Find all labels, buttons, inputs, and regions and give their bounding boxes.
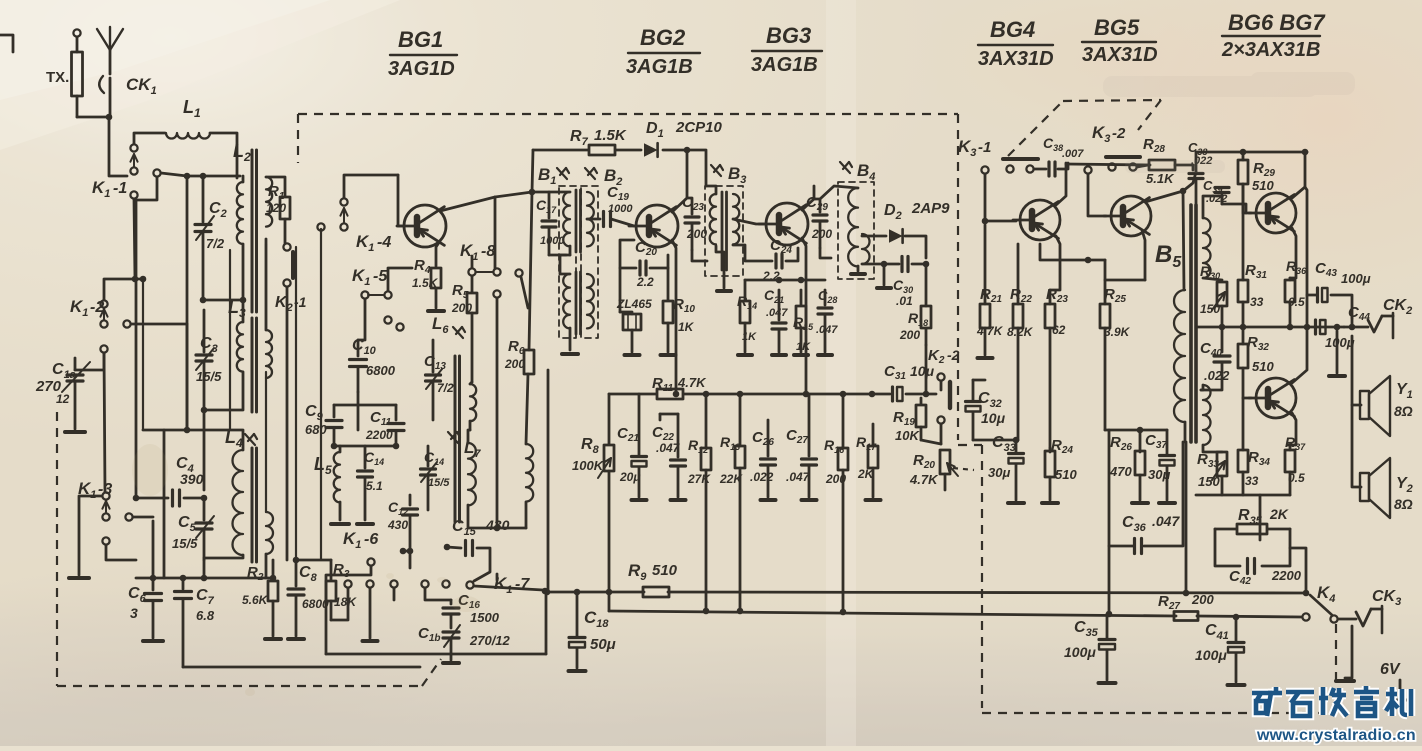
wire L3 top [242, 300, 245, 322]
svg-text:100K: 100K [572, 458, 605, 473]
wire K1-1 bottom contact down [134, 199, 135, 279]
svg-text:-2: -2 [947, 347, 960, 363]
wire L4 primary bottom [204, 555, 243, 558]
wire L6 top from R5 [470, 382, 472, 384]
wire emitter row rail [296, 559, 331, 562]
cropped mark top-left edge [0, 35, 13, 52]
wire C23 to B3 [692, 250, 707, 261]
wire vertical K2-1 down [286, 287, 289, 560]
wire B5 primary [1184, 422, 1187, 442]
transformer B2 windings [575, 272, 578, 334]
wire collector to K1-8 column [494, 197, 497, 268]
wire bus A supply [547, 591, 644, 594]
wire K3-1 to BG4 base [985, 174, 1016, 221]
wire bus B [609, 611, 1176, 616]
svg-text:4.7K: 4.7K [909, 472, 939, 487]
svg-text:3AG1D: 3AG1D [388, 58, 455, 80]
wire k1-2 contact right [131, 323, 187, 326]
svg-text:www.crystalradio.cn: www.crystalradio.cn [1256, 727, 1416, 744]
svg-text:.022: .022 [1204, 368, 1230, 383]
svg-text:3AG1B: 3AG1B [626, 56, 693, 78]
transistor BG3 [766, 203, 808, 245]
speaker Y1 [1352, 336, 1361, 405]
wire BG1 collector up [440, 197, 495, 211]
dashed shield box left stub [297, 114, 299, 163]
svg-text:10K: 10K [895, 428, 920, 443]
wire BG7 emitter [1288, 413, 1296, 445]
svg-text:.047: .047 [786, 470, 811, 484]
wire BG6 collector [1292, 152, 1305, 198]
svg-text:100μ: 100μ [1325, 335, 1355, 350]
wire K1-2 wiring [104, 279, 143, 300]
wire top rail R7/D1 [533, 149, 588, 152]
transformer B1 windings [575, 190, 578, 252]
dashed right edge near K4 [1335, 620, 1337, 713]
wire junction down to K1-1 [109, 117, 127, 176]
wire K1-4 top to rail [344, 175, 398, 198]
wire C5 bottom to gnd rail [203, 560, 206, 578]
svg-text:18K: 18K [334, 595, 357, 609]
svg-text:5.1: 5.1 [366, 479, 383, 493]
svg-text:27K: 27K [687, 472, 711, 486]
wire vertical K1-1b down [136, 178, 157, 200]
wire K1-3 contact right [133, 516, 153, 519]
svg-text:-8: -8 [481, 243, 495, 260]
svg-text:30μ: 30μ [988, 465, 1010, 480]
svg-text:3AG1B: 3AG1B [751, 54, 818, 76]
wire BG2 collector [672, 150, 687, 212]
wire K1-8 mid down to L7 [496, 298, 499, 528]
svg-text:10μ: 10μ [910, 363, 935, 379]
svg-text:-1: -1 [113, 180, 127, 197]
wire B3 sec to BG3 base [733, 219, 764, 224]
wire TX to junction [77, 116, 109, 119]
wire B5 sec bottom end [1203, 445, 1222, 452]
svg-text:3AX31D: 3AX31D [978, 48, 1054, 70]
svg-text:430: 430 [387, 518, 408, 532]
parallel R35 C42 loop [1215, 528, 1236, 531]
oscillator winding L7b [526, 444, 533, 502]
IF can dashed box B1B2 [559, 186, 576, 338]
transistor BG6 [1256, 193, 1296, 233]
switch row contacts [344, 580, 351, 587]
transistor BG5 [1111, 196, 1151, 236]
svg-text:7/2: 7/2 [206, 236, 225, 251]
svg-text:2200: 2200 [1271, 568, 1302, 583]
svg-text:510: 510 [1055, 467, 1077, 482]
svg-text:510: 510 [1252, 178, 1274, 193]
wire junction to B1 and R7 rail [495, 150, 533, 197]
wire BG4 collector to BG5 base cross [1040, 244, 1088, 260]
wire BG7 collector [1292, 327, 1307, 383]
wire B4 sec bottom [862, 263, 884, 266]
svg-text:2×3AX31B: 2×3AX31B [1221, 39, 1320, 61]
wire ground rail left section [136, 577, 273, 580]
svg-text:100μ: 100μ [1195, 647, 1227, 663]
wire L2 primary top [242, 176, 245, 182]
wire B3 bottom ground [716, 246, 724, 288]
terminal TX top [73, 29, 80, 36]
svg-text:2K: 2K [1269, 506, 1289, 522]
wire B5 sec top bottom end [1203, 278, 1222, 280]
wire BG4 emitter [1050, 236, 1060, 290]
wire AGC bus y394 [609, 393, 656, 396]
wire B4 prim [820, 186, 858, 199]
svg-text:12: 12 [56, 392, 70, 406]
transistor BG2 [636, 205, 678, 247]
svg-text:6.8: 6.8 [196, 608, 215, 623]
wire lower rail to K1-7 [326, 653, 546, 656]
svg-text:6V: 6V [1380, 661, 1401, 678]
svg-text:33: 33 [1250, 295, 1264, 309]
svg-text:-2: -2 [1112, 125, 1126, 142]
svg-text:390: 390 [180, 471, 204, 487]
svg-text:BG2: BG2 [640, 25, 686, 50]
wire vertical x136 [135, 200, 138, 498]
wire supply rail y163 right [1066, 164, 1150, 165]
dashed shield box top edge [298, 113, 958, 115]
wire K1-1 up to L1 [134, 133, 165, 144]
wire K1-6 feed [331, 588, 348, 620]
wire L4 secondary bottom [265, 554, 268, 578]
svg-text:1K: 1K [796, 341, 811, 353]
dashed shield box right edge [957, 114, 959, 440]
svg-text:1K: 1K [742, 331, 757, 343]
wire L4 primary top [187, 430, 243, 450]
watermark crystalradio [1252, 686, 1416, 744]
paper stains [132, 444, 480, 696]
svg-text:10μ: 10μ [981, 410, 1006, 426]
dashed link R20 volume [953, 468, 974, 470]
wire B1 primary connections [532, 191, 570, 194]
wire vertical x164 [163, 430, 166, 578]
svg-text:-1: -1 [978, 139, 991, 156]
svg-text:100μ: 100μ [1064, 644, 1096, 660]
svg-text:15/5: 15/5 [428, 477, 450, 489]
svg-text:510: 510 [652, 562, 678, 579]
wire B1 secondary to C19 [587, 218, 600, 221]
svg-text:470: 470 [1109, 464, 1132, 479]
wire emitter bias rail BG3 [745, 279, 825, 282]
wire vertical x321 [320, 229, 322, 560]
wire K1-3 bottom [106, 545, 136, 560]
antenna [109, 50, 112, 74]
wire K1-8 up [471, 256, 474, 268]
svg-text:2.2: 2.2 [636, 275, 654, 289]
svg-text:.047: .047 [766, 307, 788, 319]
switch K2-1 [283, 243, 290, 250]
svg-text:50μ: 50μ [590, 636, 616, 653]
svg-text:5.6K: 5.6K [242, 593, 269, 607]
svg-text:.007: .007 [1062, 148, 1084, 160]
wire CK3 down [1345, 626, 1352, 678]
capacitor C2 7/2 trimmer [200, 173, 207, 180]
svg-text:BG6 BG7: BG6 BG7 [1228, 10, 1326, 35]
wire K1-7 to bus A [474, 586, 543, 590]
svg-text:680: 680 [305, 422, 327, 437]
wire C25 down to B4 [820, 248, 831, 258]
switch K1-1 [130, 144, 137, 151]
ground C44 [1336, 331, 1339, 373]
svg-text:120: 120 [266, 201, 286, 215]
svg-text:2CP10: 2CP10 [675, 119, 723, 136]
svg-text:430: 430 [485, 517, 510, 533]
svg-text:BG5: BG5 [1094, 15, 1140, 40]
wire vertical x187 [186, 176, 189, 430]
wire vertical C6 col [152, 521, 155, 578]
wire C36 tap [1109, 545, 1133, 548]
svg-text:200: 200 [811, 227, 832, 241]
wire B5 sec top to BG6 base [1203, 196, 1222, 218]
wire vertical x230 L-net [229, 250, 231, 429]
jack CK1 [99, 76, 104, 93]
wire K1-1 feed across [161, 173, 187, 176]
wire C9 C11 top rail [334, 404, 396, 407]
wire R25 bottom rail [1105, 429, 1167, 432]
switch K1-4 [340, 198, 347, 205]
wire K3-2 to BG5 base [1088, 174, 1106, 216]
wire vertical K1-2 col [104, 353, 105, 492]
svg-text:-6: -6 [364, 531, 378, 548]
svg-text:BG1: BG1 [398, 27, 443, 52]
wire vertical x269 to bottom [265, 244, 267, 330]
transformer B5 secondary bottom [1203, 385, 1211, 445]
transformer B5 secondary top [1203, 218, 1211, 278]
svg-text:270/12: 270/12 [469, 633, 511, 648]
node antenna junction [106, 114, 113, 121]
wire K2-2 links [925, 345, 928, 394]
svg-text:2AP9: 2AP9 [911, 200, 950, 217]
wire BG3 emitter [802, 238, 806, 394]
svg-text:33: 33 [1245, 474, 1259, 488]
svg-text:BG3: BG3 [766, 23, 811, 48]
svg-text:3: 3 [130, 605, 138, 621]
wire vertical C3-C4 link [203, 410, 206, 490]
svg-text:200: 200 [899, 328, 920, 342]
IF transformer B4 [840, 162, 850, 173]
svg-text:6800: 6800 [366, 363, 396, 378]
wire output bottom rail [1196, 494, 1290, 497]
transistor BG7 [1256, 378, 1296, 418]
wire BG1 base [398, 175, 402, 226]
svg-text:-4: -4 [377, 234, 391, 251]
svg-text:-5: -5 [373, 268, 388, 285]
wire supply top right [1196, 152, 1307, 172]
inductor L7 [448, 432, 458, 443]
svg-text:.01: .01 [896, 294, 913, 308]
bleed-through stain [1103, 72, 1355, 173]
transistor BG1 [404, 205, 446, 247]
wire K1-3 left down to ground [79, 496, 102, 575]
svg-text:BG4: BG4 [990, 17, 1035, 42]
resistor R1 120 [280, 197, 290, 219]
svg-text:200: 200 [1191, 592, 1214, 607]
dashed tuning gang link left [56, 412, 58, 686]
resistor TX [76, 37, 79, 52]
wire K1-6 row links [403, 551, 410, 568]
wire BG1 emitter to R4 [436, 241, 440, 266]
svg-text:7/2: 7/2 [437, 381, 454, 395]
svg-text:200: 200 [504, 357, 525, 371]
wire BG5 emitter [1142, 230, 1145, 280]
wire BG4 collector [1056, 163, 1066, 205]
svg-text:.022: .022 [750, 470, 774, 484]
wire R19 R20 join [921, 440, 941, 444]
wire L6 bottom [469, 421, 472, 430]
wire B3 top to rail [706, 186, 716, 194]
svg-text:15/5: 15/5 [196, 369, 222, 384]
svg-text:1.5K: 1.5K [594, 127, 627, 144]
wire BG6 emitter [1290, 228, 1296, 278]
svg-text:.047: .047 [1152, 513, 1180, 529]
wire K1-5 wiring [358, 299, 365, 340]
svg-text:510: 510 [1252, 359, 1274, 374]
wire BG2 emitter [672, 240, 676, 394]
wire mid rail y327 [1196, 326, 1344, 329]
svg-text:1500: 1500 [470, 610, 500, 625]
svg-text:15/5: 15/5 [172, 536, 198, 551]
svg-text:3AX31D: 3AX31D [1082, 44, 1158, 66]
wire C10 bottom [357, 392, 360, 430]
wire vertical x143 [142, 279, 144, 430]
wire L7 ends [468, 430, 470, 443]
svg-text:5.1K: 5.1K [1146, 171, 1175, 186]
svg-text:1K: 1K [678, 320, 695, 334]
IF transformer B3 [711, 165, 721, 176]
transistor BG4 [1020, 200, 1060, 240]
svg-text:.047: .047 [816, 324, 838, 336]
ground R4 [428, 309, 444, 313]
svg-text:100μ: 100μ [1341, 271, 1371, 286]
wire L2 sec top to R1 [266, 177, 285, 196]
speaker Y2 [1352, 405, 1361, 487]
wire L2 sec bottom [265, 239, 268, 330]
wire BG3 collector [802, 186, 814, 210]
svg-text:8Ω: 8Ω [1394, 496, 1413, 512]
svg-text:ZL465: ZL465 [616, 297, 652, 311]
wire vertical x296 [295, 247, 297, 560]
ground under R3 contact [369, 588, 372, 638]
svg-text:1000: 1000 [540, 235, 565, 247]
wire C7 bottom rail [183, 666, 420, 669]
wire L2 primary bottom [203, 244, 243, 300]
wire vertical x548 [547, 370, 550, 592]
svg-text:TX.: TX. [46, 69, 69, 86]
dashed bottom edge right box [982, 712, 1336, 714]
ground C1a [65, 430, 85, 434]
svg-text:8Ω: 8Ω [1394, 403, 1413, 419]
dashed link K3-1 K3-2 parallelogram [1008, 101, 1063, 156]
wire x1307 collector rail [1305, 187, 1307, 327]
wire B5 sec bottom to BG7 base [1201, 385, 1203, 390]
wire BG5 collector [1145, 191, 1183, 202]
wire L3 bottom [204, 372, 243, 410]
